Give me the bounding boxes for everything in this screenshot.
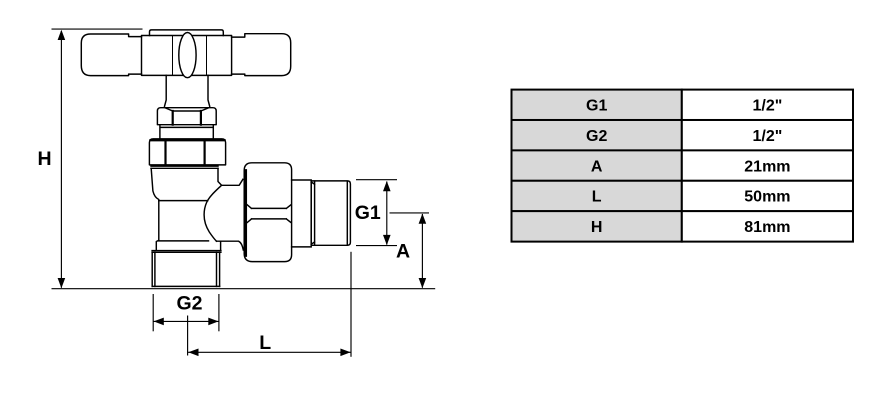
G1 bottom extension line xyxy=(356,245,397,247)
table row L fill xyxy=(512,181,682,212)
G2 dimension line xyxy=(153,320,219,322)
G2 left extension line xyxy=(152,294,154,331)
A dimension line xyxy=(421,214,423,288)
A bottom arrowhead xyxy=(419,278,427,288)
collar under packing nut xyxy=(160,125,213,139)
svg-text:H: H xyxy=(38,148,52,170)
A centerline extension xyxy=(390,212,430,214)
G2 right extension line xyxy=(218,294,220,331)
branch bottom line xyxy=(217,241,244,250)
bottom fitting bottom edge xyxy=(152,285,219,287)
svg-text:A: A xyxy=(396,240,410,262)
handle hub xyxy=(142,36,232,76)
table row G1 fill xyxy=(512,90,682,121)
L left arrowhead xyxy=(188,349,198,357)
packing hex nut xyxy=(157,108,216,125)
H bottom arrowhead xyxy=(58,278,66,288)
stem xyxy=(165,75,210,106)
G2 left arrowhead xyxy=(154,318,164,326)
union nut left edge (thick) xyxy=(244,171,247,256)
union nut outline xyxy=(244,163,291,262)
packing nut facets xyxy=(173,111,201,125)
svg-text:81mm: 81mm xyxy=(744,219,790,236)
body boss bottom line xyxy=(159,240,209,242)
G2 right arrowhead xyxy=(208,318,218,326)
handle left grip xyxy=(81,34,141,76)
table row H fill xyxy=(512,211,682,242)
bonnet hex nut xyxy=(149,139,225,165)
svg-text:1/2": 1/2" xyxy=(752,128,782,145)
svg-text:50mm: 50mm xyxy=(744,189,790,206)
bottom fitting centerline tick xyxy=(187,316,189,356)
body right edge xyxy=(218,168,221,185)
table row A fill xyxy=(512,150,682,181)
svg-text:H: H xyxy=(591,219,603,236)
L right arrowhead xyxy=(340,349,350,357)
svg-text:G1: G1 xyxy=(355,202,381,224)
body-branch fillet curve xyxy=(204,186,221,241)
bonnet top band xyxy=(151,139,225,141)
G1 dimension line xyxy=(386,182,388,245)
male thread G1 xyxy=(311,181,350,245)
union nut facet band xyxy=(247,205,291,223)
hub front face edges xyxy=(173,36,207,75)
table row G2 fill xyxy=(512,120,682,151)
body left edge xyxy=(151,169,159,251)
packing nut chamfer xyxy=(165,108,208,111)
G1 top arrowhead xyxy=(383,181,391,191)
L right extension line xyxy=(350,252,352,357)
bottom fitting body xyxy=(152,252,219,286)
body top edge xyxy=(151,166,218,168)
thread chamfer lines xyxy=(311,181,347,245)
svg-text:G1: G1 xyxy=(586,98,607,115)
svg-text:L: L xyxy=(259,332,271,354)
svg-text:A: A xyxy=(591,158,603,175)
svg-text:G2: G2 xyxy=(586,128,607,145)
svg-text:L: L xyxy=(592,189,602,206)
A top arrowhead xyxy=(419,214,427,224)
handle right grip xyxy=(232,34,291,76)
body boss top line xyxy=(159,200,208,202)
spec table xyxy=(512,90,854,242)
svg-text:1/2": 1/2" xyxy=(752,98,782,115)
L dimension line xyxy=(188,351,351,353)
cylinder between nut and thread xyxy=(292,180,312,247)
svg-text:G2: G2 xyxy=(177,293,203,315)
G1 bottom arrowhead xyxy=(383,235,391,245)
bottom flange lip xyxy=(152,251,221,253)
body lower right edge xyxy=(220,241,222,250)
H top extension line xyxy=(52,28,143,30)
table value cells xyxy=(682,90,853,121)
H dimension line xyxy=(60,31,62,288)
svg-text:21mm: 21mm xyxy=(744,158,790,175)
H top arrowhead xyxy=(58,30,66,40)
branch top line xyxy=(221,179,243,185)
G1 top extension line xyxy=(356,179,397,181)
bonnet hex facets xyxy=(166,142,205,165)
baseline extension xyxy=(52,288,436,290)
handle top lip xyxy=(150,30,224,36)
handle center ellipse (screw boss) xyxy=(179,33,196,78)
